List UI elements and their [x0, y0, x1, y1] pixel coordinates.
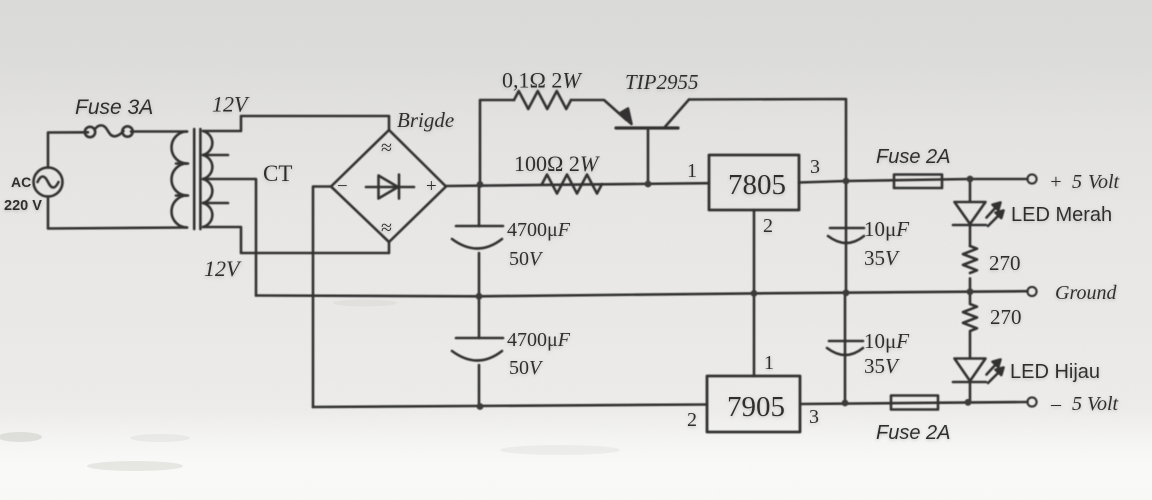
svg-text:−: −	[337, 176, 348, 197]
LED D2 (LED Hijau)	[953, 359, 986, 403]
svg-text:4700μF: 4700μF	[507, 329, 571, 351]
terminal Ground	[1027, 287, 1036, 296]
svg-text:Fuse 2A: Fuse 2A	[876, 422, 950, 444]
wire resistor R1 to transistor emitter	[571, 100, 627, 120]
regulator U1 7805 box	[709, 155, 799, 210]
wire secondary top tap to bridge	[204, 116, 389, 131]
wire R3 to ground rail	[969, 278, 972, 291]
svg-text:270: 270	[989, 251, 1021, 275]
wire 7805 pin3 output rail to +5V terminal	[799, 179, 1028, 183]
svg-text:50V: 50V	[509, 357, 544, 379]
fuse F1 (Fuse 3A)	[85, 125, 133, 137]
svg-text:270: 270	[990, 305, 1022, 329]
svg-text:35V: 35V	[864, 246, 900, 270]
svg-text:4700μF: 4700μF	[507, 219, 571, 241]
transformer T1 core	[194, 129, 200, 229]
svg-text:LED Hijau: LED Hijau	[1010, 361, 1100, 383]
regulator U2 7905 box	[707, 376, 800, 432]
wire AC loop bottom	[48, 197, 187, 229]
svg-text:≈: ≈	[381, 217, 392, 239]
capacitor C4 10uF 35V (bottom)	[827, 292, 863, 403]
svg-text:3: 3	[809, 406, 819, 428]
terminal -5V	[1027, 397, 1036, 406]
svg-text:10μF: 10μF	[864, 217, 909, 241]
svg-text:220 V: 220 V	[4, 198, 42, 214]
svg-text:35V: 35V	[864, 354, 900, 378]
capacitor C2 4700uF 50V (bottom)	[452, 297, 503, 407]
LED D1 (LED Merah)	[953, 179, 986, 246]
capacitor C1 4700uF 50V (top)	[452, 185, 503, 297]
svg-text:10μF: 10μF	[864, 329, 909, 353]
svg-text:LED Merah: LED Merah	[1011, 204, 1112, 226]
fuse F2 Fuse 2A (top)	[894, 175, 942, 189]
wire collector top rail to +5V node	[689, 99, 846, 181]
svg-text:Fuse 2A: Fuse 2A	[876, 146, 950, 168]
svg-text:Brigde: Brigde	[397, 108, 454, 132]
junction node dots	[476, 176, 974, 410]
svg-text:3: 3	[810, 156, 820, 178]
fuse F3 Fuse 2A (bottom)	[891, 396, 938, 410]
svg-text:+: +	[426, 176, 437, 197]
svg-text:100Ω 2W: 100Ω 2W	[514, 151, 600, 176]
wire negative rail to 7905 pin2	[313, 405, 707, 408]
wire fuse to transformer	[131, 130, 187, 133]
wire 7905 pin3 to -5V terminal	[800, 402, 1028, 404]
resistor R3 270 (top) zigzag	[963, 246, 977, 273]
LED D1 light arrows	[987, 203, 1004, 227]
svg-text:7905: 7905	[727, 391, 785, 423]
svg-text:≈: ≈	[381, 137, 392, 159]
svg-text:CT: CT	[263, 161, 292, 186]
svg-text:TIP2955: TIP2955	[625, 70, 699, 94]
wire secondary bottom tap to bridge	[204, 227, 389, 253]
transistor Q1 TIP2955	[616, 100, 689, 185]
wire bridge plus to main rail / 7805 pin1	[446, 183, 709, 186]
AC source V1	[34, 168, 63, 197]
svg-text:Fuse 3A: Fuse 3A	[75, 96, 153, 119]
svg-text:12V: 12V	[212, 92, 250, 117]
resistor R2 100ohm 2W zigzag	[542, 175, 602, 194]
capacitor C3 10uF 35V (top)	[828, 181, 864, 292]
wire bridge minus to negative rail	[313, 187, 331, 408]
bridge rectifier BR1 diamond	[331, 130, 446, 242]
svg-text:0,1Ω 2W: 0,1Ω 2W	[502, 68, 582, 93]
svg-text:2: 2	[763, 215, 773, 237]
svg-text:7805: 7805	[728, 169, 786, 201]
terminal +5V	[1027, 174, 1036, 183]
ground rail wire	[256, 291, 1028, 296]
svg-text:1: 1	[687, 160, 697, 182]
scan smudge marks	[0, 300, 620, 472]
wire center tap CT down to ground rail	[203, 179, 256, 296]
bridge internal diode	[366, 175, 414, 199]
svg-text:2: 2	[687, 409, 697, 431]
svg-text:12V: 12V	[204, 256, 242, 281]
resistor R1 0.1ohm 2W zigzag	[514, 91, 571, 109]
svg-text:1: 1	[764, 352, 774, 374]
svg-text:Ground: Ground	[1055, 282, 1117, 304]
svg-text:AC: AC	[11, 174, 31, 190]
svg-text:50V: 50V	[509, 248, 544, 270]
wire 7805 pin2 down through ground to 7905 pin1	[753, 210, 756, 376]
transformer T1 primary winding	[172, 132, 189, 228]
transformer T1 secondary winding	[203, 131, 228, 227]
resistor R4 270 (bottom) zigzag	[963, 292, 977, 358]
wire AC loop top	[48, 132, 88, 167]
LED D2 light arrows	[987, 360, 1004, 384]
wire branch up to 0.1 ohm resistor	[480, 100, 514, 185]
